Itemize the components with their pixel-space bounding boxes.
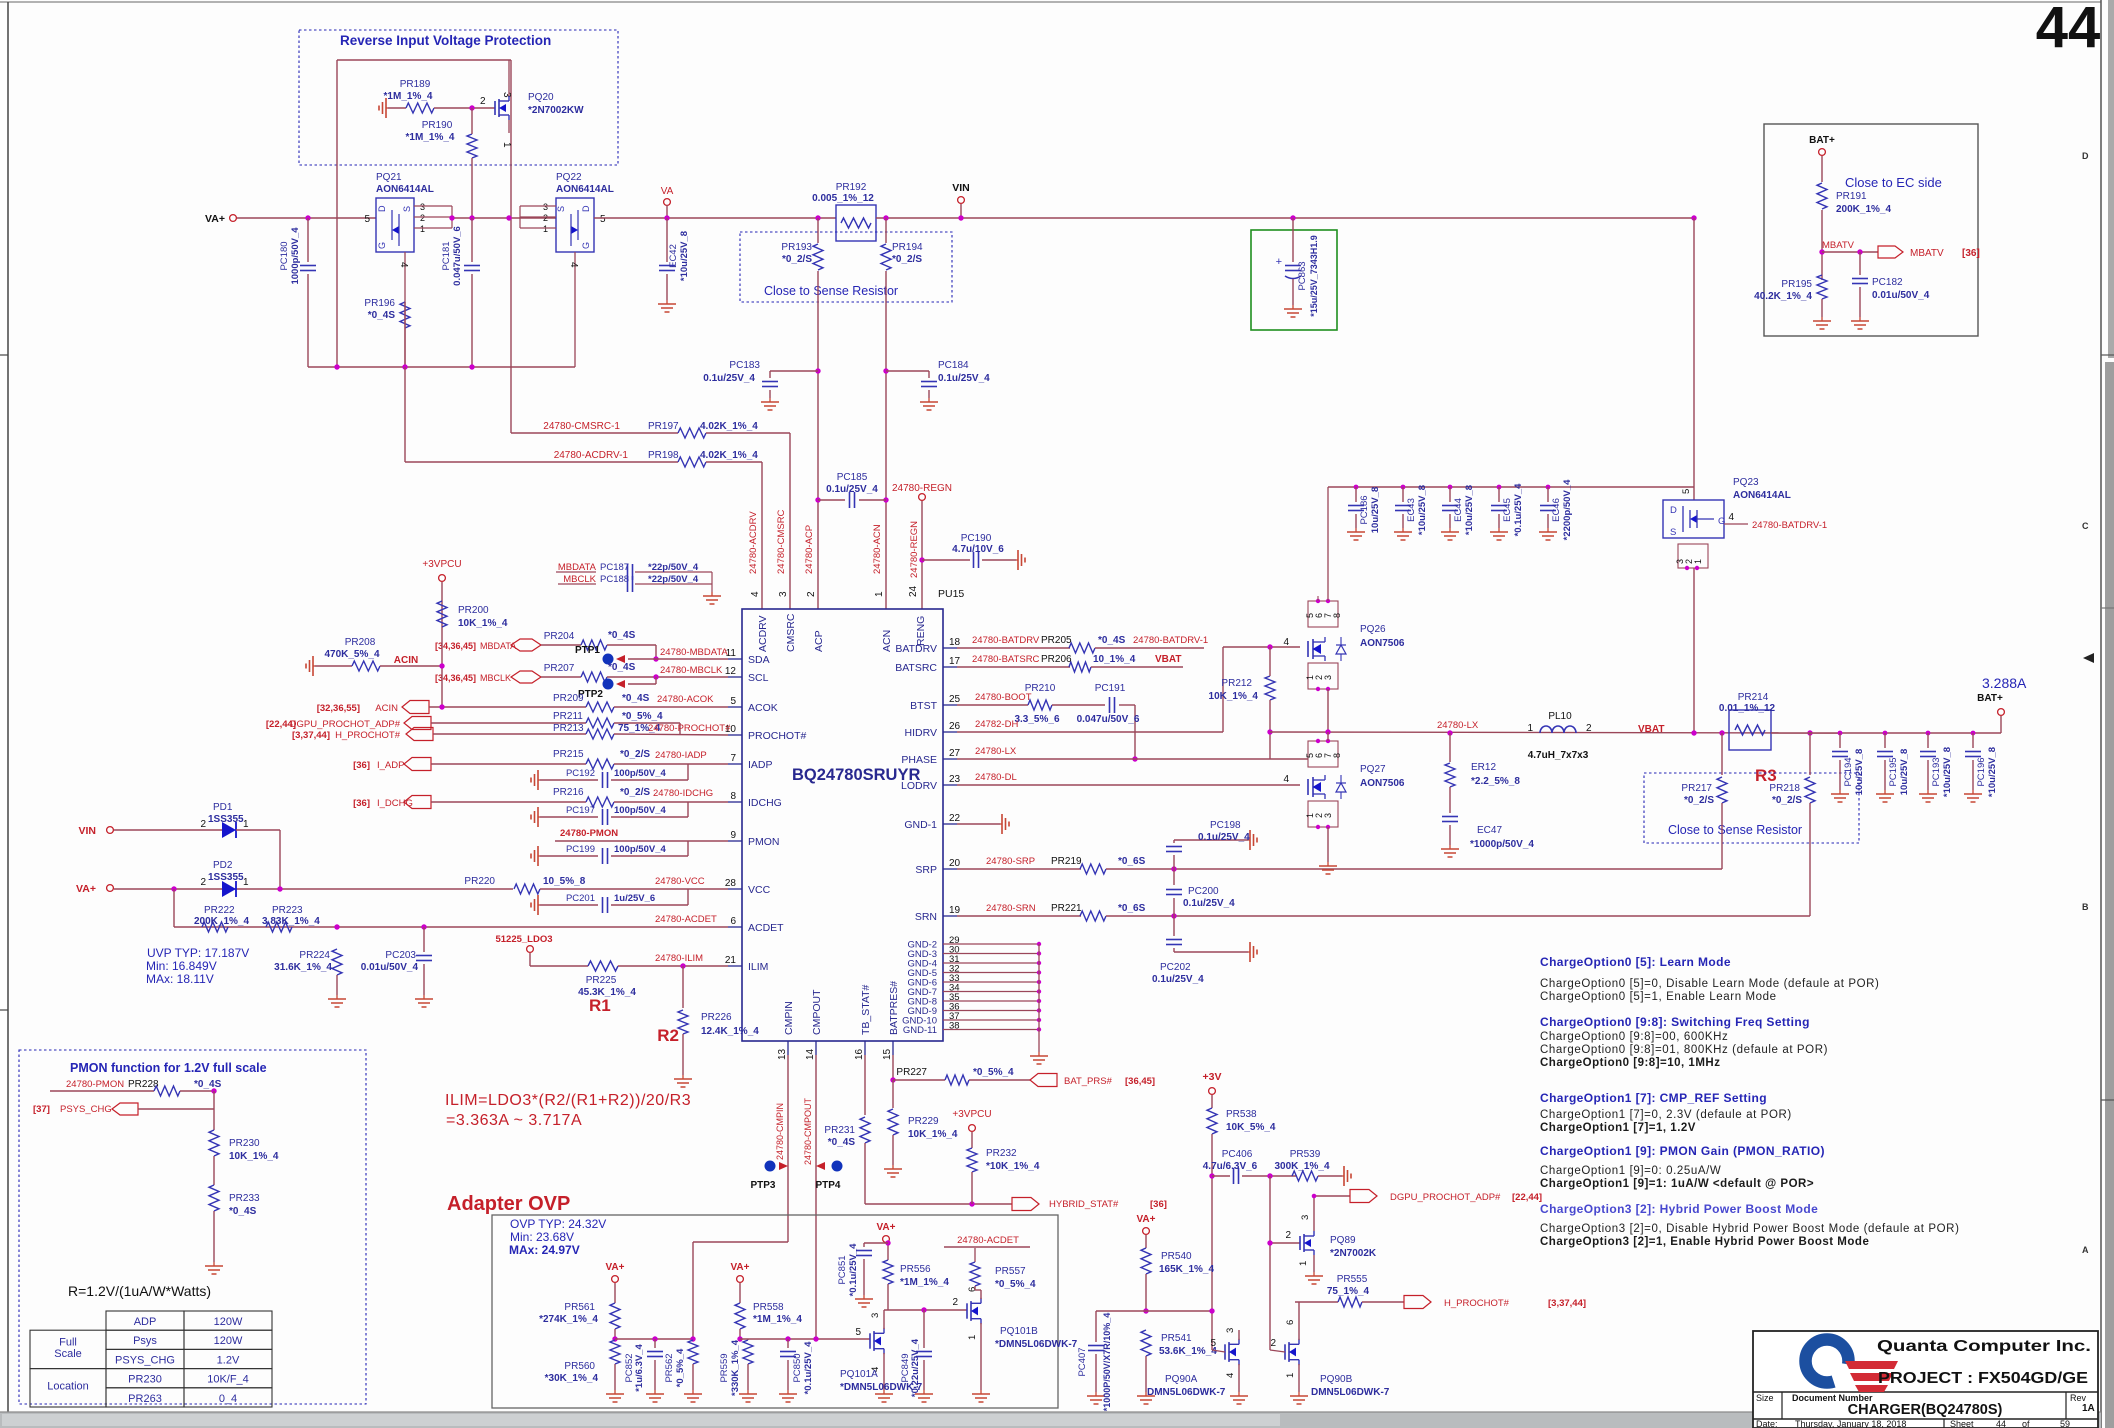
svg-text:PR230: PR230 [128,1374,162,1386]
svg-text:[36,45]: [36,45] [1125,1076,1155,1087]
svg-text:PQ89: PQ89 [1330,1235,1356,1246]
svg-text:*15u/25V_7343H1.9: *15u/25V_7343H1.9 [1309,235,1319,317]
svg-text:*0_4S: *0_4S [608,630,636,641]
svg-text:AON7506: AON7506 [1360,638,1405,649]
svg-text:24780-MBDATA: 24780-MBDATA [660,647,728,658]
svg-text:24780-ACDET: 24780-ACDET [957,1235,1019,1246]
svg-text:*2200p/50V_4: *2200p/50V_4 [1562,479,1573,540]
svg-text:2: 2 [1285,1230,1291,1241]
svg-text:MBDATA: MBDATA [480,641,516,651]
svg-text:3: 3 [501,92,512,98]
svg-text:ChargeOption1 [9]: PMON Gain (: ChargeOption1 [9]: PMON Gain (PMON_RATIO… [1540,1144,1825,1158]
svg-text:IDCHG: IDCHG [748,797,782,809]
svg-text:HIDRV: HIDRV [905,727,937,739]
svg-text:PR556: PR556 [900,1264,931,1275]
svg-text:3: 3 [778,591,789,597]
svg-text:10u/25V_8: 10u/25V_8 [1899,749,1910,795]
svg-text:6: 6 [730,916,736,927]
svg-text:24780-ACDET: 24780-ACDET [655,914,717,925]
svg-text:24780-PROCHOT#: 24780-PROCHOT# [648,723,731,734]
svg-text:PC185: PC185 [837,472,868,483]
svg-text:Date:: Date: [1756,1419,1778,1428]
svg-text:10u/25V_8: 10u/25V_8 [1370,487,1381,533]
svg-text:PR212: PR212 [1221,678,1252,689]
svg-text:SDA: SDA [748,654,770,666]
svg-text:PR561: PR561 [564,1302,595,1313]
svg-text:PC407: PC407 [1077,1347,1088,1376]
svg-text:GND-11: GND-11 [903,1025,937,1036]
svg-text:26: 26 [949,721,961,732]
svg-text:PR190: PR190 [422,120,453,131]
svg-text:+3VPCU: +3VPCU [952,1109,991,1120]
svg-text:24780-REGN: 24780-REGN [892,483,952,494]
svg-text:R1: R1 [589,996,611,1015]
svg-text:24780-BATDRV-1: 24780-BATDRV-1 [1752,520,1827,531]
svg-text:10K_5%_4: 10K_5%_4 [1226,1122,1276,1133]
svg-text:51225_LDO3: 51225_LDO3 [495,934,552,945]
svg-text:MAx: 18.11V: MAx: 18.11V [146,972,214,986]
svg-text:PR217: PR217 [1681,783,1712,794]
svg-text:PQ90B: PQ90B [1320,1374,1353,1385]
svg-text:ACDET: ACDET [748,922,784,934]
svg-text:PQ21: PQ21 [376,172,402,183]
svg-text:7: 7 [730,753,736,764]
svg-text:EC44: EC44 [1453,498,1464,522]
svg-text:*0_2/S: *0_2/S [620,749,650,760]
svg-text:PC203: PC203 [385,950,416,961]
svg-text:PL10: PL10 [1548,711,1572,722]
svg-text:PC183: PC183 [729,360,760,371]
svg-text:PR538: PR538 [1226,1109,1257,1120]
svg-text:MBCLK: MBCLK [480,673,511,683]
svg-text:PR198: PR198 [648,450,679,461]
svg-text:G: G [1718,516,1725,527]
svg-text:4.7u/6.3V_6: 4.7u/6.3V_6 [1203,1161,1258,1172]
svg-text:1: 1 [1285,1373,1296,1378]
svg-text:3: 3 [1225,1328,1236,1333]
svg-text:C: C [2082,521,2089,531]
svg-text:PC198: PC198 [1210,820,1241,831]
svg-text:5: 5 [600,214,606,225]
svg-text:PC200: PC200 [1188,886,1219,897]
svg-text:PC196: PC196 [1976,757,1987,786]
svg-text:24780-ACDRV-1: 24780-ACDRV-1 [554,450,629,461]
svg-text:PR555: PR555 [1337,1274,1368,1285]
svg-text:3.288A: 3.288A [1982,675,2027,691]
svg-text:HYBRID_STAT#: HYBRID_STAT# [1049,1199,1119,1210]
svg-text:15: 15 [882,1048,893,1060]
svg-text:MBCLK: MBCLK [563,574,596,585]
svg-text:59: 59 [2060,1419,2070,1428]
svg-text:PHASE: PHASE [901,754,937,766]
svg-text:ACN: ACN [881,630,893,652]
svg-text:1SS355: 1SS355 [208,814,244,825]
svg-text:24782-DH: 24782-DH [975,719,1018,730]
svg-text:[36]: [36] [353,798,370,809]
svg-text:*1M_1%_4: *1M_1%_4 [384,91,433,102]
svg-text:ACOK: ACOK [748,702,778,714]
svg-text:[34,36,45]: [34,36,45] [435,641,476,651]
svg-text:4.7uH_7x7x3: 4.7uH_7x7x3 [1528,750,1589,761]
svg-text:1: 1 [243,819,249,830]
svg-text:PC851: PC851 [837,1255,848,1284]
svg-text:3: 3 [1323,813,1333,818]
svg-text:PR221: PR221 [1051,903,1082,914]
svg-text:Rev: Rev [2070,1393,2087,1403]
svg-text:1: 1 [967,1335,978,1340]
svg-text:GND-1: GND-1 [904,819,937,831]
svg-text:ChargeOption1 [7]: CMP_REF Set: ChargeOption1 [7]: CMP_REF Setting [1540,1091,1767,1105]
svg-text:*0_2/S: *0_2/S [620,787,650,798]
svg-text:PR222: PR222 [204,905,235,916]
svg-text:PR557: PR557 [995,1266,1026,1277]
svg-text:*274K_1%_4: *274K_1%_4 [539,1314,598,1325]
svg-text:VA+: VA+ [1137,1214,1156,1225]
svg-text:PR205: PR205 [1041,635,1072,646]
svg-text:24780-LX: 24780-LX [1437,720,1479,731]
svg-text:ACDRV: ACDRV [757,615,769,652]
svg-text:EC42: EC42 [668,244,679,268]
svg-text:PC193: PC193 [1931,757,1942,786]
svg-text:I_ADP: I_ADP [377,760,404,771]
svg-text:*0_4S: *0_4S [828,1137,856,1148]
svg-text:470K_5%_4: 470K_5%_4 [324,649,379,660]
svg-text:CMSRC: CMSRC [785,613,797,652]
svg-text:ACIN: ACIN [394,655,418,666]
svg-text:2: 2 [1586,723,1592,734]
svg-text:0_4: 0_4 [219,1393,237,1405]
svg-text:1: 1 [420,224,425,234]
svg-text:*0.1u/25V_4: *0.1u/25V_4 [1513,483,1524,537]
svg-text:1: 1 [874,591,885,597]
svg-text:0.047u/50V_6: 0.047u/50V_6 [452,226,463,286]
svg-text:*0_5%_4: *0_5%_4 [973,1067,1014,1078]
svg-text:PC850: PC850 [792,1353,803,1382]
svg-text:PROJECT : FX504GD/GE: PROJECT : FX504GD/GE [1878,1370,2088,1387]
svg-text:A: A [2082,1245,2089,1255]
svg-text:*0_5%_4: *0_5%_4 [995,1279,1036,1290]
svg-text:PR213: PR213 [553,723,584,734]
svg-text:*10u/25V_8: *10u/25V_8 [1464,485,1475,535]
svg-text:24780-IDCHG: 24780-IDCHG [653,788,713,799]
svg-text:24780-IADP: 24780-IADP [655,750,707,761]
svg-text:BAT_PRS#: BAT_PRS# [1064,1076,1113,1087]
svg-text:PR193: PR193 [781,242,812,253]
svg-text:*10u/25V_8: *10u/25V_8 [1942,747,1953,797]
svg-text:53.6K_1%_4: 53.6K_1%_4 [1159,1346,1217,1357]
svg-text:16: 16 [854,1048,865,1060]
svg-text:*1M_1%_4: *1M_1%_4 [900,1277,949,1288]
svg-text:24780-CMSRC: 24780-CMSRC [776,509,787,574]
svg-text:DGPU_PROCHOT_ADP#: DGPU_PROCHOT_ADP# [1390,1192,1501,1203]
svg-text:24780-ACOK: 24780-ACOK [657,694,714,705]
svg-text:25: 25 [949,694,961,705]
svg-text:Adapter OVP: Adapter OVP [447,1193,570,1215]
svg-text:Close to Sense Resistor: Close to Sense Resistor [1668,823,1802,837]
svg-text:PQ101A: PQ101A [840,1369,878,1380]
svg-text:24780-CMPIN: 24780-CMPIN [775,1103,785,1160]
svg-text:3: 3 [543,202,548,212]
svg-text:4: 4 [1283,637,1289,648]
svg-text:PR263: PR263 [128,1393,162,1405]
svg-text:2: 2 [952,1297,958,1308]
svg-text:2: 2 [806,591,817,597]
svg-text:8: 8 [1332,753,1342,758]
svg-text:4.02K_1%_4: 4.02K_1%_4 [700,421,758,432]
svg-text:2: 2 [543,213,548,223]
svg-text:3: 3 [1323,675,1333,680]
svg-text:5: 5 [730,696,736,707]
svg-text:G: G [377,242,387,249]
svg-text:24780-BATSRC: 24780-BATSRC [972,654,1040,665]
svg-text:AON6414AL: AON6414AL [376,184,434,195]
svg-text:*0_2/S: *0_2/S [1772,795,1802,806]
svg-text:PR231: PR231 [824,1125,855,1136]
svg-text:3.83K_1%_4: 3.83K_1%_4 [262,916,320,927]
svg-text:ChargeOption0 [9:8]=10, 1MHz: ChargeOption0 [9:8]=10, 1MHz [1540,1057,1720,1069]
svg-text:4.02K_1%_4: 4.02K_1%_4 [700,450,758,461]
svg-text:PTP4: PTP4 [815,1180,840,1191]
svg-text:2: 2 [420,213,425,223]
svg-text:*DMN5L06DWK-7: *DMN5L06DWK-7 [995,1339,1078,1350]
svg-text:2: 2 [200,877,206,888]
svg-text:R=1.2V/(1uA/W*Watts): R=1.2V/(1uA/W*Watts) [68,1283,211,1299]
svg-text:24: 24 [908,585,919,597]
svg-text:VIN: VIN [78,825,96,837]
svg-text:DMN5L06DWK-7: DMN5L06DWK-7 [1311,1387,1390,1398]
svg-text:PROCHOT#: PROCHOT# [748,730,807,742]
svg-text:Reverse Input Voltage Protecti: Reverse Input Voltage Protection [340,33,551,48]
svg-text:ADP: ADP [134,1316,157,1328]
svg-text:0.01u/50V_4: 0.01u/50V_4 [1872,290,1930,301]
svg-text:2: 2 [1270,1338,1276,1349]
svg-text:*0_6S: *0_6S [1118,903,1146,914]
svg-text:ChargeOption1 [9]=1: 1uA/W <de: ChargeOption1 [9]=1: 1uA/W <default @ PO… [1540,1178,1814,1190]
svg-text:BATPRES#: BATPRES# [888,981,900,1035]
svg-text:PC201: PC201 [566,893,595,904]
svg-text:Thursday, January 18, 2018: Thursday, January 18, 2018 [1795,1419,1906,1428]
svg-text:EC47: EC47 [1477,825,1502,836]
svg-text:*0_5%_4: *0_5%_4 [675,1348,686,1387]
svg-text:PQ22: PQ22 [556,172,582,183]
svg-text:1SS355: 1SS355 [208,872,244,883]
svg-text:1: 1 [1693,559,1703,564]
svg-text:*10u/25V_8: *10u/25V_8 [1417,485,1428,535]
svg-text:ChargeOption0 [5]: Learn Mode: ChargeOption0 [5]: Learn Mode [1540,955,1731,969]
svg-text:*0.1u/25V_4: *0.1u/25V_4 [803,1341,814,1395]
svg-text:Close to EC side: Close to EC side [1845,175,1942,190]
svg-text:100p/50V_4: 100p/50V_4 [614,844,666,855]
svg-text:17: 17 [949,656,961,667]
svg-text:PR196: PR196 [364,298,395,309]
svg-text:PD1: PD1 [213,802,233,813]
svg-text:Sheet: Sheet [1950,1419,1974,1428]
svg-text:24780-ACDRV: 24780-ACDRV [748,511,759,574]
svg-text:VBAT: VBAT [1638,724,1664,735]
svg-text:=3.363A ~ 3.717A: =3.363A ~ 3.717A [446,1112,582,1129]
svg-text:*1000p/50V_4: *1000p/50V_4 [1470,839,1534,850]
svg-text:PQ23: PQ23 [1733,477,1759,488]
svg-text:VA+: VA+ [877,1222,896,1233]
svg-text:S: S [1670,527,1676,538]
svg-text:*30K_1%_4: *30K_1%_4 [545,1373,599,1384]
svg-text:Close to Sense Resistor: Close to Sense Resistor [764,284,898,298]
svg-text:20: 20 [949,858,961,869]
svg-text:PC863: PC863 [1297,261,1308,290]
svg-text:31.6K_1%_4: 31.6K_1%_4 [274,962,332,973]
svg-text:24780-CMSRC-1: 24780-CMSRC-1 [543,421,620,432]
svg-text:10K_1%_4: 10K_1%_4 [229,1151,279,1162]
svg-text:ChargeOption1 [9]=0: 0.25uA/W: ChargeOption1 [9]=0: 0.25uA/W [1540,1165,1721,1177]
svg-text:10K_1%_4: 10K_1%_4 [908,1129,958,1140]
svg-text:D: D [2082,151,2089,161]
svg-text:VA+: VA+ [205,213,225,225]
svg-text:10_5%_8: 10_5%_8 [543,876,586,887]
svg-text:PR539: PR539 [1290,1149,1321,1160]
svg-text:PQ27: PQ27 [1360,764,1386,775]
svg-text:12: 12 [725,666,737,677]
svg-text:D: D [377,205,387,212]
svg-text:CMPOUT: CMPOUT [811,989,823,1035]
svg-text:PR558: PR558 [753,1302,784,1313]
svg-text:PR224: PR224 [299,950,330,961]
svg-text:EC43: EC43 [1406,498,1417,522]
svg-text:PR226: PR226 [701,1012,732,1023]
svg-text:ChargeOption3 [2]=0, Disable H: ChargeOption3 [2]=0, Disable Hybrid Powe… [1540,1223,1960,1235]
svg-text:2: 2 [480,96,486,107]
svg-text:PC194: PC194 [1843,757,1854,786]
svg-text:ER12: ER12 [1471,762,1496,773]
svg-text:24780-ACN: 24780-ACN [872,524,883,574]
svg-text:44: 44 [2036,0,2101,60]
svg-text:*0_4S: *0_4S [608,662,636,673]
svg-text:OVP TYP: 24.32V: OVP TYP: 24.32V [510,1217,606,1231]
svg-text:0.047u/50V_6: 0.047u/50V_6 [1077,714,1140,725]
svg-text:PTP1: PTP1 [575,645,600,656]
svg-text:SRP: SRP [915,864,937,876]
svg-text:PR200: PR200 [458,605,489,616]
svg-text:24780-MBCLK: 24780-MBCLK [660,665,723,676]
svg-text:27: 27 [949,748,961,759]
svg-text:*0.1u/25V_4: *0.1u/25V_4 [848,1243,859,1297]
svg-text:ChargeOption1 [7]=1, 1.2V: ChargeOption1 [7]=1, 1.2V [1540,1122,1696,1134]
svg-text:0.1u/25V_4: 0.1u/25V_4 [1198,832,1250,843]
svg-text:EC46: EC46 [1551,498,1562,522]
svg-text:*0_2/S: *0_2/S [1684,795,1714,806]
svg-text:AON7506: AON7506 [1360,778,1405,789]
svg-text:S: S [402,206,412,212]
svg-text:300K_1%_4: 300K_1%_4 [1274,1161,1329,1172]
svg-text:MBATV: MBATV [1822,240,1855,251]
svg-text:CHARGER(BQ24780S): CHARGER(BQ24780S) [1848,1402,2003,1418]
svg-text:BAT+: BAT+ [1809,135,1835,146]
svg-text:*1M_1%_4: *1M_1%_4 [753,1314,802,1325]
svg-text:PU15: PU15 [938,588,964,600]
svg-text:24780-REGN: 24780-REGN [909,521,920,578]
svg-text:B: B [2082,902,2089,912]
svg-text:R2: R2 [657,1026,679,1045]
svg-text:10K/F_4: 10K/F_4 [207,1374,249,1386]
svg-text:PR229: PR229 [908,1116,939,1127]
svg-text:of: of [2022,1419,2030,1428]
svg-text:*22p/50V_4: *22p/50V_4 [648,574,699,585]
svg-text:Scale: Scale [54,1348,82,1360]
svg-text:H_PROCHOT#: H_PROCHOT# [335,730,401,741]
svg-text:ACIN: ACIN [375,703,398,714]
svg-text:ChargeOption0 [5]=0, Disable L: ChargeOption0 [5]=0, Disable Learn Mode … [1540,978,1879,990]
svg-text:13: 13 [777,1048,788,1060]
svg-text:S: S [556,206,566,212]
svg-text:*330K_1%_4: *330K_1%_4 [730,1339,741,1396]
svg-text:PR228: PR228 [128,1079,159,1090]
svg-text:VA+: VA+ [76,883,96,895]
svg-text:PMON: PMON [748,836,780,848]
svg-text:24780-VCC: 24780-VCC [655,876,705,887]
svg-text:Full: Full [59,1337,77,1349]
svg-text:24780-LX: 24780-LX [975,746,1017,757]
svg-text:PQ101B: PQ101B [1000,1326,1038,1337]
svg-text:PR192: PR192 [836,182,867,193]
svg-text:PR559: PR559 [719,1353,730,1382]
svg-text:3: 3 [1300,1215,1311,1220]
svg-text:24780-BATDRV: 24780-BATDRV [972,635,1040,646]
svg-text:4: 4 [750,591,761,597]
svg-text:[36]: [36] [1150,1199,1167,1210]
svg-text:MAx: 24.97V: MAx: 24.97V [509,1243,580,1257]
svg-text:LODRV: LODRV [901,780,937,792]
svg-text:10K_1%_4: 10K_1%_4 [458,618,508,629]
svg-text:0.1u/25V_4: 0.1u/25V_4 [703,373,755,384]
svg-text:PR206: PR206 [1041,654,1072,665]
svg-text:44: 44 [1996,1419,2006,1428]
svg-text:PC187: PC187 [600,562,629,573]
svg-text:SRN: SRN [915,911,937,923]
svg-text:*0_4S: *0_4S [622,693,650,704]
svg-text:AON6414AL: AON6414AL [1733,490,1791,501]
svg-text:24780-PMON: 24780-PMON [560,828,618,839]
svg-text:BAT+: BAT+ [1977,693,2003,704]
svg-text:24780-SRP: 24780-SRP [986,856,1035,867]
svg-text:DMN5L06DWK-7: DMN5L06DWK-7 [1147,1387,1226,1398]
svg-text:10_1%_4: 10_1%_4 [1093,654,1136,665]
svg-text:1: 1 [543,224,548,234]
svg-text:5: 5 [1681,489,1692,494]
svg-text:PC188: PC188 [600,574,629,585]
svg-text:ChargeOption3 [2]: Hybrid Powe: ChargeOption3 [2]: Hybrid Power Boost Mo… [1540,1202,1818,1216]
svg-text:24780-ACP: 24780-ACP [804,525,815,574]
svg-text:PR230: PR230 [229,1138,260,1149]
svg-text:EC45: EC45 [1502,498,1513,522]
svg-text:VIN: VIN [952,182,970,194]
svg-text:ChargeOption1 [7]=0, 2.3V (def: ChargeOption1 [7]=0, 2.3V (defaule at PO… [1540,1109,1792,1121]
svg-text:28: 28 [725,878,737,889]
svg-text:*0_6S: *0_6S [1118,856,1146,867]
svg-text:1: 1 [1527,723,1533,734]
svg-text:22: 22 [949,813,961,824]
svg-text:1: 1 [243,877,249,888]
svg-text:0.1u/25V_4: 0.1u/25V_4 [938,373,990,384]
svg-text:4: 4 [1728,512,1734,523]
svg-text:PR204: PR204 [544,631,575,642]
svg-text:24780-BOOT: 24780-BOOT [975,692,1032,703]
svg-text:BTST: BTST [910,700,937,712]
svg-text:PC199: PC199 [566,844,595,855]
svg-text:PC191: PC191 [1095,683,1126,694]
svg-text:PC182: PC182 [1872,277,1903,288]
svg-text:PR218: PR218 [1769,783,1800,794]
svg-text:120W: 120W [214,1335,243,1347]
svg-text:*0_4S: *0_4S [194,1079,222,1090]
